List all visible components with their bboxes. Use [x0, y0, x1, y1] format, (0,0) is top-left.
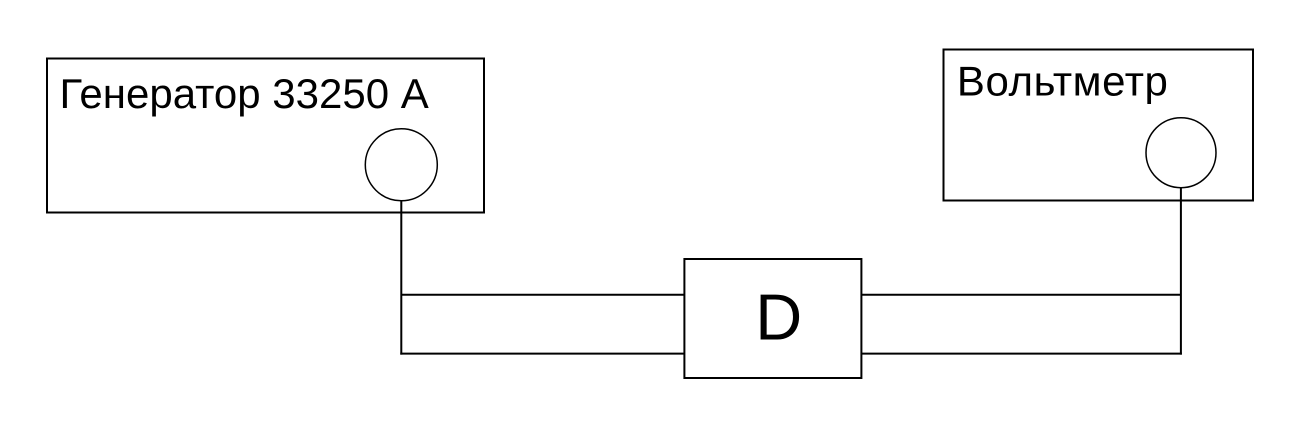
voltmeter input terminal (circle)	[1146, 118, 1216, 188]
svg-text:D: D	[755, 281, 802, 354]
generator box	[47, 59, 484, 213]
wire: upper right horizontal (D to voltmeter)	[861, 294, 1181, 296]
wire: lower right horizontal (D to voltmeter)	[861, 353, 1182, 355]
generator output terminal (circle)	[365, 129, 437, 201]
voltmeter box	[944, 50, 1254, 201]
wire: upper left horizontal (generator to D)	[401, 294, 684, 296]
wire: generator terminal vertical drop	[400, 201, 402, 355]
wire: lower left horizontal (generator to D)	[400, 353, 684, 355]
device under test box D	[684, 259, 861, 378]
svg-text:Вольтметр: Вольтметр	[957, 58, 1169, 105]
wire: voltmeter terminal vertical drop	[1180, 187, 1182, 354]
svg-text:Генератор 33250 А: Генератор 33250 А	[60, 70, 429, 117]
